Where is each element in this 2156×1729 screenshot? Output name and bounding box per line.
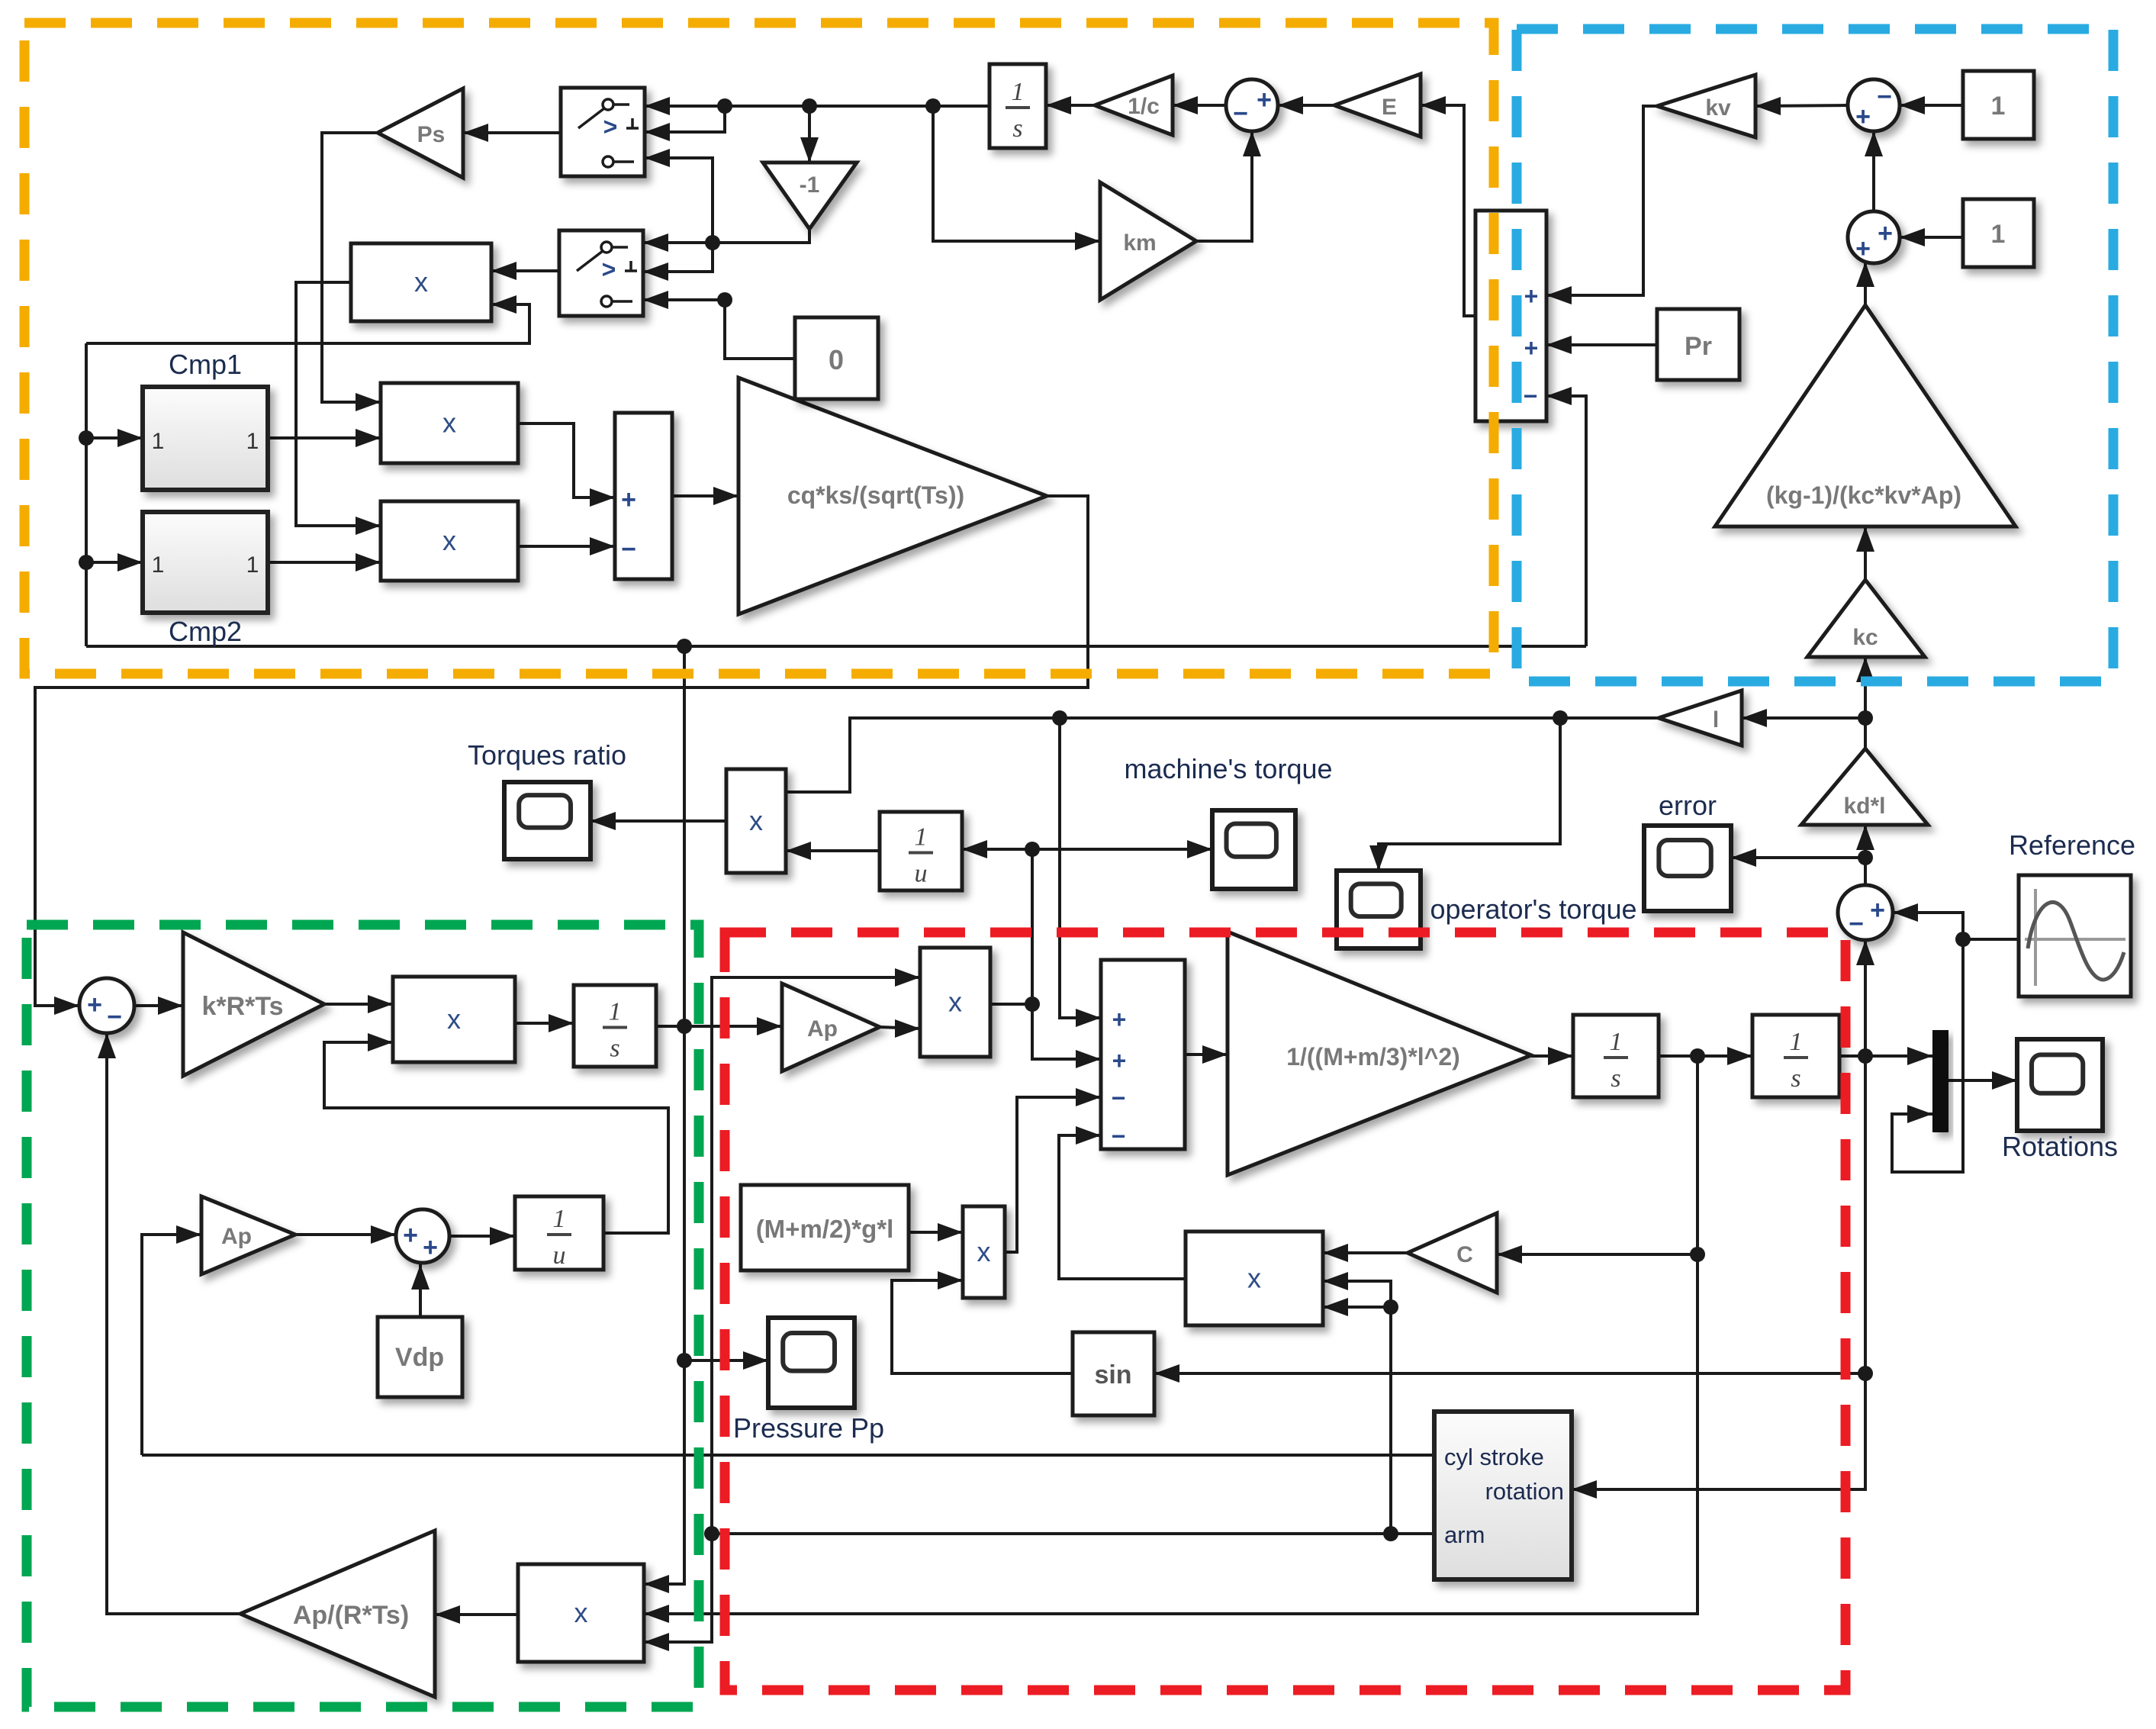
wire gain -1 output to Switch2 in1 xyxy=(643,229,809,252)
svg-text:x: x xyxy=(1247,1263,1261,1294)
wire big gain (kg-1) tip up to B2 xyxy=(1856,262,1874,305)
wire product X7 output up to big Sum in4 (-) xyxy=(1059,1126,1186,1279)
svg-text:+: + xyxy=(87,990,102,1019)
wire green sum output to gain k*R*Ts xyxy=(134,997,183,1015)
subsystem Cmp1 xyxy=(143,387,268,490)
switch Switch1 xyxy=(561,88,645,176)
wire speed tap down to product X8 in2 xyxy=(644,1254,1697,1623)
svg-text:-1: -1 xyxy=(800,172,820,198)
integrator 1/s second xyxy=(1752,1015,1839,1097)
svg-text:s: s xyxy=(1791,1064,1800,1093)
svg-text:1: 1 xyxy=(553,1205,566,1233)
wire Cmp loop vertical xyxy=(79,343,94,646)
wire Reference up into error sum (+) xyxy=(1893,903,1963,939)
gain kv xyxy=(1657,75,1755,137)
gain Ps xyxy=(378,89,463,178)
scope Rotations xyxy=(2017,1039,2103,1131)
product X5 xyxy=(963,1206,1005,1298)
svg-text:Pr: Pr xyxy=(1685,332,1712,361)
reciprocal 1/u xyxy=(880,812,962,890)
wire constant Pr to Add in2 (+) xyxy=(1546,336,1657,354)
sum block big Sum xyxy=(1101,960,1185,1150)
svg-text:−: − xyxy=(1112,1122,1126,1150)
sum circle B2 xyxy=(1848,211,1900,263)
wire Reference output xyxy=(1955,932,2019,947)
scope Torques ratio xyxy=(504,782,590,859)
svg-text:1/((M+m/3)*l^2): 1/((M+m/3)*l^2) xyxy=(1286,1043,1460,1071)
wire X6 out up to 1/u and machine torque scope xyxy=(1025,842,1040,1012)
svg-text:km: km xyxy=(1123,230,1156,256)
svg-text:s: s xyxy=(610,1035,619,1063)
svg-text:1: 1 xyxy=(1790,1028,1803,1056)
svg-text:x: x xyxy=(414,266,428,298)
integrator 1/s green xyxy=(574,985,656,1067)
sum circle B1 xyxy=(1848,79,1900,131)
wire arm tap up to product X6 in1 xyxy=(712,968,920,1534)
svg-text:C: C xyxy=(1456,1242,1473,1267)
gain k*R*Ts xyxy=(183,932,324,1076)
wire tap to Cmp2 input xyxy=(86,553,143,572)
wire product X4 output to Torques ratio scope xyxy=(590,812,726,830)
wire gain l output bus (operator torque) xyxy=(761,710,1659,801)
svg-text:error: error xyxy=(1659,790,1717,821)
svg-text:u: u xyxy=(553,1241,566,1270)
wire product X9 output to integrator xyxy=(515,1014,574,1032)
svg-text:−: − xyxy=(1112,1084,1126,1112)
product X6 xyxy=(920,948,990,1057)
wire tap to Switch1 in2 (control) xyxy=(645,106,725,141)
svg-text:+: + xyxy=(1112,1047,1127,1074)
scope error xyxy=(1644,826,1731,911)
svg-text:1: 1 xyxy=(246,552,259,578)
constant Pr xyxy=(1657,309,1739,380)
wire mux output to Rotations scope xyxy=(1948,1071,2017,1090)
svg-text:E: E xyxy=(1382,95,1397,120)
wire cyl stroke output bus xyxy=(142,1454,1434,1457)
wire rotations feedback up to error sum (-) xyxy=(1856,940,1874,1056)
wire tap left into sin xyxy=(1154,1364,1865,1383)
wire gain Ap output to product X6 in2 xyxy=(880,1019,920,1038)
gain km xyxy=(1100,182,1196,300)
svg-text:arm: arm xyxy=(1444,1521,1485,1548)
constant 1a xyxy=(1963,71,2034,139)
svg-text:x: x xyxy=(447,1003,461,1035)
wire Reference loop to mux in2 xyxy=(1892,939,1963,1172)
svg-text:(kg-1)/(kc*kv*Ap): (kg-1)/(kc*kv*Ap) xyxy=(1766,481,1961,509)
wire constant 1b to sum circle B2 xyxy=(1900,228,1963,246)
svg-text:1/c: 1/c xyxy=(1128,94,1160,119)
wire 1/u green output up to product X9 in2 xyxy=(324,1033,668,1233)
svg-text:1: 1 xyxy=(609,998,622,1026)
svg-text:+: + xyxy=(1878,219,1893,248)
wire inertia gain output to 1st integrator xyxy=(1531,1047,1573,1065)
svg-text:u: u xyxy=(915,860,928,888)
svg-text:Reference: Reference xyxy=(2009,829,2135,861)
wire gravity const to product X5 in1 xyxy=(909,1223,963,1241)
svg-text:1: 1 xyxy=(1991,220,2006,249)
wire sum circle B1 output to gain kv xyxy=(1755,97,1848,115)
region box gas spring (blue dashed) xyxy=(1517,29,2113,681)
svg-text:+: + xyxy=(1524,282,1539,310)
wire tap left into gain l xyxy=(1742,709,1865,727)
wire gain E output to sum circle S1 xyxy=(1278,96,1334,114)
svg-text:Vdp: Vdp xyxy=(395,1343,444,1372)
wire cyl stroke up to gain Ap (green) xyxy=(142,1225,201,1455)
wire gain Ap green to sum ++ xyxy=(295,1225,396,1244)
wire Sum5 output to gain cq*ks xyxy=(672,487,739,505)
switch Switch2 xyxy=(559,230,643,316)
sum circle green ++ xyxy=(396,1209,449,1263)
svg-text:−: − xyxy=(1233,99,1248,128)
svg-text:operator's torque: operator's torque xyxy=(1430,893,1636,925)
wire -1 branch down to Switch2 in2 (control) xyxy=(643,243,713,281)
wire sum ++ output to 1/u green xyxy=(449,1227,515,1245)
gain kc xyxy=(1807,580,1925,657)
wire gain kv output down to Add in1 (+) xyxy=(1546,106,1657,304)
region box cylinder chamber (green dashed) xyxy=(27,925,699,1707)
svg-text:Ap: Ap xyxy=(807,1016,838,1042)
region box mechanism dynamics (red dashed) xyxy=(725,932,1845,1690)
svg-text:x: x xyxy=(574,1597,588,1628)
svg-text:1: 1 xyxy=(915,823,928,852)
svg-text:Pressure Pp: Pressure Pp xyxy=(733,1412,884,1444)
svg-text:Torques ratio: Torques ratio xyxy=(468,739,626,771)
scope machine's torque xyxy=(1212,810,1295,889)
svg-text:+: + xyxy=(1524,334,1539,362)
svg-text:s: s xyxy=(1012,114,1022,143)
wire product X1 output down to product X3 in1 xyxy=(296,282,381,535)
svg-text:x: x xyxy=(749,805,763,836)
svg-text:+: + xyxy=(423,1233,438,1262)
svg-text:+: + xyxy=(1112,1006,1127,1033)
svg-text:0: 0 xyxy=(829,344,844,375)
gain kd*l xyxy=(1801,749,1928,825)
svg-text:1: 1 xyxy=(1610,1028,1623,1056)
svg-text:>: > xyxy=(603,113,618,140)
product X8 xyxy=(518,1564,644,1662)
svg-text:+: + xyxy=(403,1221,418,1250)
gain Ap (green) xyxy=(201,1196,295,1274)
constant (M+m/2)*g*l xyxy=(741,1185,909,1270)
wire tap to Cmp1 input xyxy=(86,429,143,447)
wire 1/s output bus to Switch1 in1 xyxy=(645,97,990,115)
constant 1b xyxy=(1963,199,2034,267)
subsystem Cmp2 xyxy=(143,512,268,613)
svg-text:l: l xyxy=(1713,707,1719,732)
svg-text:kd*l: kd*l xyxy=(1843,794,1885,819)
wire product X2 output to Sum5 (+) xyxy=(518,423,615,507)
sum circle error xyxy=(1838,885,1893,940)
svg-text:x: x xyxy=(977,1236,991,1267)
wire Cmp2 output to product X3 in2 xyxy=(268,553,381,572)
wire tap into machine torque scope xyxy=(1032,840,1212,858)
wire gain Ps output down to product X2 in1 xyxy=(322,133,381,411)
wire gain kc output up to big gain base xyxy=(1856,526,1874,580)
wire Cmp1 output to product X2 in2 xyxy=(268,429,381,447)
svg-text:cyl stroke: cyl stroke xyxy=(1444,1444,1544,1470)
source Reference xyxy=(2019,875,2131,997)
wire kd*l output up to gain kc and gain l xyxy=(1856,657,1874,749)
wire constant 1a to sum circle B1 xyxy=(1900,96,1963,114)
svg-text:machine's torque: machine's torque xyxy=(1124,753,1332,784)
svg-text:x: x xyxy=(948,987,962,1018)
mux block xyxy=(1932,1030,1948,1132)
sum block Sum5 xyxy=(615,413,672,579)
svg-text:Rotations: Rotations xyxy=(2002,1131,2118,1162)
svg-text:1: 1 xyxy=(1991,92,2006,121)
svg-text:+: + xyxy=(1870,896,1885,925)
reciprocal 1/u green xyxy=(515,1196,603,1270)
svg-text:Ap/(R*Ts): Ap/(R*Ts) xyxy=(293,1601,409,1630)
wire arm tap to product X7 in3 xyxy=(1323,1298,1391,1316)
sum block Add xyxy=(1475,211,1546,421)
gain (kg-1)/(kc*kv*Ap) xyxy=(1715,305,2016,526)
svg-text:1: 1 xyxy=(152,552,165,578)
gain 1/c xyxy=(1095,76,1173,135)
wire tap down to big Sum in1 (+) xyxy=(1060,718,1101,1027)
wire product X3 output to Sum5 (-) xyxy=(518,537,615,555)
product X4 torques ratio xyxy=(726,769,786,873)
svg-text:Cmp2: Cmp2 xyxy=(169,616,242,647)
gain l xyxy=(1659,691,1742,745)
wire arm output bus xyxy=(704,1526,1434,1541)
product X2 xyxy=(381,383,518,463)
product X3 xyxy=(381,501,518,581)
svg-text:Ap: Ap xyxy=(221,1224,252,1249)
svg-text:−: − xyxy=(1524,382,1538,410)
gain E xyxy=(1334,74,1421,137)
wire tap into 1/u xyxy=(962,840,1032,858)
gain 1/((M+m/3)*l^2) xyxy=(1228,932,1531,1175)
svg-text:1: 1 xyxy=(1012,78,1025,106)
svg-text:1: 1 xyxy=(246,429,259,454)
svg-text:x: x xyxy=(442,407,456,439)
function sin xyxy=(1073,1332,1154,1415)
scope Pressure Pp xyxy=(768,1318,854,1408)
wire Switch2 output to product X1 in1 xyxy=(491,262,559,280)
wire Pp vertical distribution xyxy=(644,646,692,1593)
svg-text:−: − xyxy=(1849,910,1864,939)
sum circle green +- xyxy=(79,978,134,1033)
wire 1st integrator output to 2nd integrator xyxy=(1659,1047,1752,1065)
svg-text:kv: kv xyxy=(1705,95,1731,121)
svg-text:k*R*Ts: k*R*Ts xyxy=(201,992,283,1021)
wire Add block output up to gain E input xyxy=(1421,96,1475,316)
svg-text:kc: kc xyxy=(1852,625,1878,650)
wire Vdp up to sum ++ xyxy=(411,1264,430,1317)
wire Cmp loop top to product X1 in2 xyxy=(86,295,529,343)
svg-text:s: s xyxy=(1611,1064,1620,1093)
integrator 1/s (pressure ratio) xyxy=(990,64,1046,148)
wire big Sum output to inertia gain xyxy=(1185,1045,1228,1064)
wire product X5 output up to big Sum in3 (-) xyxy=(1005,1088,1101,1252)
svg-text:1: 1 xyxy=(152,429,165,454)
constant 0 xyxy=(795,317,878,399)
wire cq*ks output return to green box sum xyxy=(35,496,1088,1015)
wire Pp tap to Pressure Pp scope xyxy=(684,1351,768,1370)
wire green integrator output to gain Ap (red) xyxy=(656,1017,782,1035)
gain Ap (red) xyxy=(782,984,880,1071)
wire product X6 output junction xyxy=(990,1003,1032,1006)
scope operator's torque xyxy=(1337,871,1421,948)
svg-text:sin: sin xyxy=(1094,1360,1131,1389)
product X7 xyxy=(1186,1232,1323,1325)
wire X6 out down to big Sum in2 (+) xyxy=(1032,1004,1101,1068)
svg-text:−: − xyxy=(621,535,636,564)
wire speed tap down to gain C xyxy=(1497,1056,1705,1264)
svg-text:cq*ks/(sqrt(Ts)): cq*ks/(sqrt(Ts)) xyxy=(787,481,964,509)
wire 2nd integrator output to mux in1 xyxy=(1839,1047,1932,1065)
subsystem cyl stroke / rotation / arm xyxy=(1434,1412,1572,1579)
gain cq*ks/(sqrt(Ts)) xyxy=(739,378,1047,614)
svg-text:Ps: Ps xyxy=(417,122,446,147)
svg-text:(M+m/2)*g*l: (M+m/2)*g*l xyxy=(756,1215,894,1243)
wire sum circle S1 output to gain 1/c xyxy=(1173,96,1226,114)
wire gain km output up to sum circle S1 xyxy=(1196,131,1261,241)
wire tap down into gain -1 xyxy=(800,106,819,163)
gain C xyxy=(1408,1213,1497,1293)
wire tap down into operator torque scope xyxy=(1369,718,1560,871)
svg-text:Cmp1: Cmp1 xyxy=(169,349,242,380)
svg-text:+: + xyxy=(621,485,636,514)
region box pneumatic supply (orange dashed) xyxy=(24,23,1494,674)
wire constant 0 to Switch2 in3 xyxy=(643,291,795,359)
svg-text:+: + xyxy=(1855,102,1871,131)
svg-text:rotation: rotation xyxy=(1485,1478,1564,1505)
wire sum circle B2 output up to B1 xyxy=(1865,131,1883,211)
wire rotations feedback down to rotation port xyxy=(1572,1056,1873,1499)
svg-text:x: x xyxy=(442,525,456,556)
wire arm tap up to product X7 in2/in3 xyxy=(1323,1272,1398,1534)
wire arm tap down to product X8 in3 xyxy=(644,1534,712,1651)
svg-text:+: + xyxy=(1855,234,1871,263)
gain Ap/(R*Ts) xyxy=(240,1531,435,1697)
svg-text:>: > xyxy=(602,256,616,283)
wire gain k*R*Ts output to product X9 in1 xyxy=(324,995,393,1013)
svg-text:−: − xyxy=(1877,82,1892,111)
wire gain Ap/(R*Ts) output up to green sum (-) xyxy=(98,1033,240,1614)
product X1 xyxy=(351,243,491,321)
svg-text:−: − xyxy=(107,1003,122,1032)
wire product X8 output to gain Ap/(R*Ts) xyxy=(435,1605,518,1624)
wire error sum output up to kd*l xyxy=(1856,825,1874,885)
wire tap to error scope xyxy=(1731,848,1865,867)
wire Pp feedback horizontal bus xyxy=(86,639,1586,654)
wire Pp feedback up to Add in3 (-) xyxy=(1546,387,1586,646)
svg-text:+: + xyxy=(1257,85,1272,114)
product X9 xyxy=(393,977,515,1062)
wire tap down-right to gain km input xyxy=(933,106,1100,250)
constant Vdp xyxy=(378,1317,462,1397)
wire Switch1 output to gain Ps xyxy=(463,124,561,142)
wire 1/u output to ratio product X4 in2 xyxy=(786,842,880,860)
wire sin output to product X5 in2 xyxy=(892,1271,1073,1373)
gain -1 xyxy=(763,163,857,229)
sum circle S1 xyxy=(1226,79,1278,131)
wire gain C output to product X7 in1 xyxy=(1323,1244,1408,1262)
wire -1 branch up to Switch1 in3 xyxy=(645,149,713,243)
wire gain 1/c output to integrator 1/s xyxy=(1046,96,1095,114)
integrator 1/s first xyxy=(1573,1015,1659,1097)
